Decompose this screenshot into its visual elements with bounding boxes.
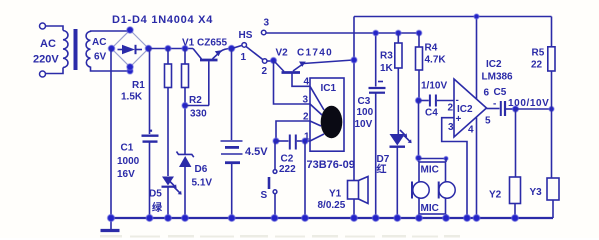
node rail R2 xyxy=(182,46,188,52)
svg-text:1: 1 xyxy=(304,132,310,143)
svg-text:IC2: IC2 xyxy=(457,104,473,115)
svg-text:C1: C1 xyxy=(121,143,134,154)
svg-text:8/0.25: 8/0.25 xyxy=(318,200,346,211)
svg-text:S: S xyxy=(261,190,268,201)
wire V+ column speaker xyxy=(353,17,355,181)
IC2 output lead xyxy=(487,108,500,110)
node bus S xyxy=(271,215,278,222)
ground symbol xyxy=(110,218,112,229)
svg-text:IC2: IC2 xyxy=(486,59,502,70)
svg-text:3: 3 xyxy=(448,122,454,133)
svg-text:C5: C5 xyxy=(494,87,507,98)
svg-text:R2: R2 xyxy=(189,95,202,106)
capacitor C2 xyxy=(276,140,289,142)
microphone right xyxy=(439,182,455,198)
svg-text:3: 3 xyxy=(264,18,270,29)
svg-text:73B76-09: 73B76-09 xyxy=(307,159,355,171)
earphone Y2 xyxy=(515,109,517,177)
svg-text:220V: 220V xyxy=(33,54,59,66)
svg-text:C4: C4 xyxy=(425,108,438,119)
switch S xyxy=(274,141,276,170)
bridge rectifier D1-D4 diamond xyxy=(112,30,149,67)
transformer T1 primary winding xyxy=(63,31,68,68)
wire contact2 to node xyxy=(267,60,272,62)
wire C4 node down to MIC xyxy=(418,101,420,163)
node bridge top xyxy=(127,27,133,33)
svg-text:Y3: Y3 xyxy=(530,187,543,198)
svg-text:100/10V: 100/10V xyxy=(508,98,549,109)
svg-text:+: + xyxy=(456,114,462,125)
node C2 right xyxy=(302,138,308,144)
svg-text:330: 330 xyxy=(190,109,207,120)
node bridge left xyxy=(108,45,114,51)
resistor R5 xyxy=(551,17,553,47)
node V2 emitter xyxy=(351,57,357,63)
wire DC rail xyxy=(149,48,194,50)
node rail battery xyxy=(228,45,234,51)
svg-text:LM386: LM386 xyxy=(482,72,514,83)
IC1 bond wires xyxy=(310,86,324,110)
transformer T1 secondary winding xyxy=(86,32,90,68)
HS contact 3 xyxy=(261,30,266,35)
transistor V2 xyxy=(275,62,284,72)
HS contact 2 xyxy=(262,59,267,64)
node mic left top xyxy=(416,155,422,161)
svg-text:4: 4 xyxy=(304,77,310,88)
bottom ghost strip xyxy=(100,235,460,238)
battery 4.5V xyxy=(231,49,233,141)
svg-text:AC: AC xyxy=(92,37,106,48)
svg-text:MIC: MIC xyxy=(421,165,439,176)
AC source terminal top xyxy=(40,23,46,29)
svg-text:1: 1 xyxy=(241,52,247,63)
wire C5 node to R5 column xyxy=(516,108,552,110)
svg-text:IC1: IC1 xyxy=(321,83,337,94)
svg-text:R5: R5 xyxy=(532,48,545,59)
transistor V1 xyxy=(193,49,202,60)
wire AC bottom to primary xyxy=(45,68,63,74)
wire bridge right down to C1 xyxy=(149,49,151,135)
transformer core xyxy=(74,29,78,70)
IC2 pin4 ground wire xyxy=(476,118,478,219)
node bus D7 xyxy=(394,215,401,222)
V2 base lead to IC1 pin4 xyxy=(292,74,310,87)
capacitor C4 xyxy=(419,100,429,102)
svg-text:2: 2 xyxy=(448,103,454,114)
svg-text:V2: V2 xyxy=(276,48,289,59)
svg-text:C1740: C1740 xyxy=(297,48,333,59)
zener D6 xyxy=(177,152,194,158)
svg-text:2: 2 xyxy=(262,66,268,77)
node bridge AC bottom xyxy=(127,68,133,74)
IC1 pin2 wire xyxy=(276,121,310,140)
svg-text:R1: R1 xyxy=(132,80,145,91)
AC source terminal bottom xyxy=(40,71,46,77)
node bus mic right xyxy=(443,215,450,222)
ground bus xyxy=(109,217,553,219)
svg-text:22: 22 xyxy=(531,60,543,71)
svg-text:1.5K: 1.5K xyxy=(121,92,143,103)
svg-text:222: 222 xyxy=(279,164,296,175)
node bus C1 xyxy=(146,215,153,222)
resistor R3 xyxy=(396,30,402,36)
svg-text:10V: 10V xyxy=(355,119,373,130)
svg-text:D1-D4 1N4004 X4: D1-D4 1N4004 X4 xyxy=(112,14,213,26)
wire contact3 rail xyxy=(266,32,419,34)
IC1 COB blob xyxy=(321,106,343,138)
svg-text:1000: 1000 xyxy=(117,156,140,167)
earphone Y3 xyxy=(551,109,553,178)
node bus D5 xyxy=(165,215,172,222)
svg-text:3: 3 xyxy=(303,95,309,106)
capacitor C3 xyxy=(375,33,377,87)
svg-text:-: - xyxy=(493,99,496,110)
wire secondary top to bridge top xyxy=(91,30,131,32)
node mic right top xyxy=(444,157,448,161)
svg-text:C3: C3 xyxy=(358,96,371,107)
resistor R2 xyxy=(184,49,186,65)
svg-text:100: 100 xyxy=(357,107,374,118)
switch HS xyxy=(234,45,242,48)
node C2 left xyxy=(273,138,279,144)
node bridge bottom xyxy=(127,64,133,70)
svg-text:HS: HS xyxy=(239,30,253,41)
svg-text:5.1V: 5.1V xyxy=(192,178,213,189)
svg-text:MIC: MIC xyxy=(421,203,439,214)
svg-text:4.7K: 4.7K xyxy=(425,55,447,66)
mic leads to bus xyxy=(418,214,420,218)
svg-text:红: 红 xyxy=(377,163,387,176)
wire mic right feed xyxy=(445,159,447,163)
wire IC2 pin3 jog to ground bus xyxy=(442,118,467,218)
LED D7 xyxy=(390,134,406,146)
node C5 out xyxy=(513,106,519,112)
node R4 C4 mic xyxy=(416,98,422,104)
wire C2 right node to bus xyxy=(304,141,306,218)
capacitor C1 xyxy=(150,130,153,132)
D7 arrows xyxy=(400,130,405,135)
svg-text:Y1: Y1 xyxy=(329,189,342,200)
node bus ground xyxy=(108,215,115,222)
node bus Y1 xyxy=(351,215,358,222)
svg-text:5: 5 xyxy=(485,116,491,127)
svg-text:4: 4 xyxy=(468,125,474,136)
op-amp IC2 triangle xyxy=(454,79,487,137)
svg-text:1K: 1K xyxy=(380,63,394,74)
svg-text:D6: D6 xyxy=(195,164,208,175)
svg-text:1/10V: 1/10V xyxy=(421,81,447,92)
svg-text:Y2: Y2 xyxy=(489,190,502,201)
node R2 to V1 base xyxy=(182,103,188,109)
IC1 box xyxy=(310,78,344,151)
node bridge right xyxy=(145,45,151,51)
svg-text:2: 2 xyxy=(303,112,309,123)
wire node to IC1 pin3 xyxy=(274,61,311,105)
LED D5 xyxy=(162,177,174,186)
resistor R1 xyxy=(167,49,169,65)
svg-text:C2: C2 xyxy=(281,154,294,165)
svg-text:V1 CZ655: V1 CZ655 xyxy=(182,38,227,49)
node bus D6 xyxy=(182,215,189,222)
MIC box xyxy=(419,162,446,214)
wire bridge left to ground bus xyxy=(110,49,112,219)
capacitor C5 xyxy=(500,101,502,116)
node V2 collector xyxy=(271,58,277,64)
svg-text:6: 6 xyxy=(484,88,490,99)
node bus mic left xyxy=(416,215,423,222)
svg-text:4.5V: 4.5V xyxy=(245,146,268,158)
wire mic top link xyxy=(419,158,447,160)
V2 emitter arrow xyxy=(299,62,306,67)
resistor R4 xyxy=(416,30,422,36)
node rail R1 xyxy=(165,46,171,52)
V1 emitter arrow xyxy=(215,50,222,56)
speaker Y1 xyxy=(348,181,359,200)
HS arm xyxy=(246,47,262,60)
svg-text:D5: D5 xyxy=(149,189,162,200)
top rail xyxy=(354,16,552,18)
svg-text:16V: 16V xyxy=(117,169,135,180)
svg-text:D7: D7 xyxy=(377,154,390,165)
node bus C3 xyxy=(372,215,379,222)
svg-text:R4: R4 xyxy=(425,43,438,54)
HS contact 1 xyxy=(242,43,247,48)
svg-text:绿: 绿 xyxy=(152,201,163,214)
node bus C2 xyxy=(302,215,309,222)
wire secondary bottom to bridge bottom xyxy=(91,67,131,72)
node bus battery xyxy=(228,215,235,222)
IC2 pin6 wire xyxy=(476,17,478,100)
wire R2 node to V1 base xyxy=(185,105,209,107)
svg-text:AC: AC xyxy=(40,38,56,50)
microphone left xyxy=(413,182,429,198)
bridge inner diode xyxy=(118,49,123,51)
svg-text:6V: 6V xyxy=(94,52,107,63)
svg-text:R3: R3 xyxy=(380,51,393,62)
wire AC top to primary xyxy=(45,26,63,31)
LED D5 arrows xyxy=(170,181,175,186)
